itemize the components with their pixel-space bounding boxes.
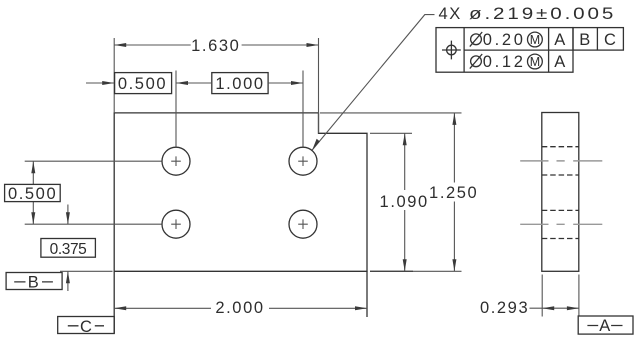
dim 2.000 line (114, 307, 367, 309)
dim 0.375 arrows (outside) (67, 205, 69, 292)
svg-text:C: C (80, 318, 92, 336)
FCF row2 MMC symbol (528, 54, 543, 69)
dimension 1.630 arrowheads (114, 43, 318, 47)
dim 1.250 arrowheads (452, 113, 456, 271)
svg-text:B: B (579, 31, 592, 49)
datum B extension line (60, 270, 113, 272)
side view hidden lines hole row 2 (542, 210, 579, 238)
side view center line row 1 (520, 160, 602, 162)
dim 1.250 top extension line (320, 112, 462, 114)
datum A box (578, 316, 633, 334)
dimension 1.630 line (114, 44, 318, 46)
svg-text:0.500: 0.500 (8, 185, 57, 203)
hole H1 center cross (171, 156, 181, 166)
svg-text:A: A (599, 317, 610, 335)
svg-text:M: M (530, 55, 540, 69)
svg-text:4X: 4X (439, 5, 462, 23)
dim 1.250 bottom extension line (370, 270, 462, 272)
hole H3 center cross (171, 219, 181, 229)
FCF row2 dia symbol (470, 54, 482, 69)
svg-text:M: M (530, 33, 540, 47)
hole H2 top-right circle (289, 147, 317, 175)
position symbol (442, 41, 461, 60)
svg-text:1.250: 1.250 (429, 184, 478, 202)
svg-text:0.500: 0.500 (118, 75, 167, 93)
svg-text:2.000: 2.000 (215, 299, 264, 317)
dim 2.000 arrowheads (114, 306, 367, 310)
FCF row1 MMC symbol (528, 32, 543, 47)
basic dim 1.000 box (212, 73, 268, 94)
hole H1 top-left circle (162, 147, 190, 175)
dim 1.090 step extension line (370, 132, 412, 134)
hole H3 bottom-left circle (162, 210, 190, 238)
dim 0.375 box (41, 239, 96, 258)
svg-text:1.630: 1.630 (191, 37, 240, 55)
hole H4 bottom-right circle (289, 210, 317, 238)
left row extension lines (25, 161, 162, 224)
basic dim 0.500 box (top) (115, 73, 172, 94)
leader arrowhead (312, 139, 320, 150)
dim 0.500 left vertical arrows (32, 161, 34, 224)
FCF row1 dia symbol (470, 32, 482, 47)
side view center line row 2 (520, 223, 602, 225)
plate outline (main view, stepped top-right corner) (114, 113, 367, 271)
top dim arrows row (86, 82, 303, 84)
feature control frame outer box (436, 28, 623, 73)
svg-text:A: A (554, 53, 567, 71)
svg-text:A: A (554, 31, 567, 49)
svg-text:0.20: 0.20 (483, 31, 526, 49)
svg-text:C: C (604, 31, 618, 49)
hole H4 center cross (298, 219, 308, 229)
svg-text:0.375: 0.375 (50, 241, 87, 258)
datum B box (6, 273, 62, 290)
dim 0.293 extension lines (542, 275, 579, 317)
side view hidden lines hole row 1 (542, 147, 579, 175)
side view rectangle (542, 113, 579, 272)
leader 4X hole callout (312, 15, 434, 150)
hole H2 center cross (298, 156, 308, 166)
dim 0.293 arrowheads (542, 306, 579, 310)
dim 1.090 line (404, 133, 406, 271)
dim 0.500 left box (5, 184, 61, 201)
dim 1.090 arrowheads (403, 133, 407, 271)
dimension 1.630 extension lines (114, 38, 318, 133)
svg-text:ø.219±0.005: ø.219±0.005 (469, 4, 616, 23)
hole center extension lines (top) (176, 71, 303, 147)
svg-text:0.293: 0.293 (480, 299, 529, 317)
svg-text:B: B (28, 273, 39, 291)
dim 1.250 line (453, 113, 455, 271)
dim 2.000 extension lines (114, 271, 367, 333)
datum C box (58, 317, 114, 334)
svg-text:0.12: 0.12 (483, 53, 526, 71)
svg-text:1.000: 1.000 (215, 75, 264, 93)
dim 0.293 line with leader (530, 307, 579, 309)
svg-text:1.090: 1.090 (380, 193, 429, 211)
